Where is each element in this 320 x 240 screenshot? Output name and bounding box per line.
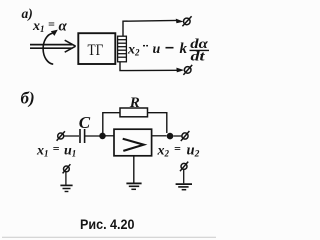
lower-left terminal (63, 164, 71, 173)
svg-text:а): а) (22, 6, 33, 21)
wire node to amplifier (106, 135, 115, 137)
bottom output wire (120, 62, 178, 71)
ground (middle, op-amp) (126, 183, 141, 189)
resistor R (120, 108, 148, 117)
svg-text:=: = (53, 142, 60, 156)
wire capacitor to node (85, 135, 100, 137)
top output wire (123, 20, 177, 36)
svg-text:ТГ: ТГ (88, 42, 104, 59)
op-amp gain symbol > (123, 139, 144, 151)
svg-text:dt: dt (191, 50, 206, 65)
svg-text:=: = (174, 142, 181, 156)
wire node to output terminal (173, 135, 181, 137)
top terminal (182, 16, 191, 26)
svg-text:u: u (153, 42, 161, 57)
top wire arrowhead (176, 19, 184, 24)
svg-text:k: k (180, 41, 188, 57)
wire to ground (left) (65, 172, 67, 185)
input terminal (57, 131, 65, 141)
svg-text:Рис. 4.20: Рис. 4.20 (80, 216, 135, 232)
rotation arc (43, 33, 53, 64)
ground (left) (60, 185, 72, 191)
tachogenerator box TG (78, 33, 115, 64)
collector / brush block (hatched) (118, 36, 127, 62)
output wire amp to node (152, 135, 167, 137)
shaft (double line) (30, 45, 73, 49)
bottom wire arrowhead (176, 68, 184, 73)
lower-right terminal (180, 162, 188, 172)
bottom terminal (183, 65, 192, 75)
feedback wire right (resistor down to output node) (148, 113, 167, 133)
feedback wire left (node up to resistor) (103, 113, 120, 133)
op-amp U1 box (114, 129, 152, 156)
svg-text:R: R (129, 95, 140, 111)
wire terminal to capacitor (64, 135, 79, 137)
svg-text:α: α (59, 18, 68, 34)
rotation arrowhead (51, 30, 58, 36)
wire amp to ground (middle) (133, 156, 135, 183)
input node (junction dot) (99, 133, 106, 140)
ground (right) (176, 184, 192, 190)
svg-text:C: C (79, 113, 91, 132)
svg-text:=: = (48, 17, 55, 31)
capacitor C (80, 129, 85, 143)
svg-text:б): б) (21, 89, 35, 108)
scan artifact: faint bottom edge (2, 236, 216, 238)
wire to ground (right) (183, 169, 185, 183)
output node (junction dot) (167, 133, 174, 140)
shaft arrowhead into TG box (65, 40, 76, 52)
output terminal (181, 131, 190, 141)
